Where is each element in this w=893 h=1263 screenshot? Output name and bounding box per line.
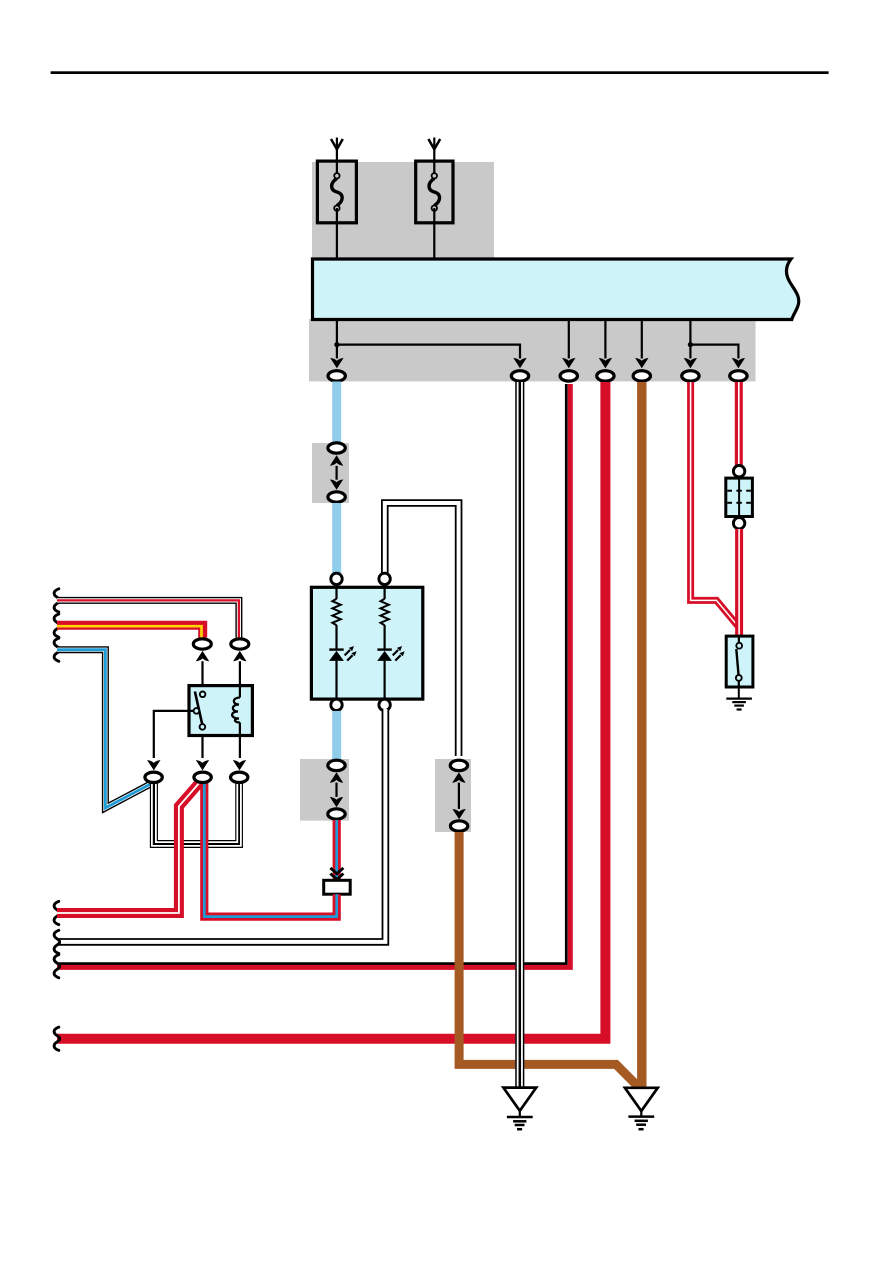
resistor R2 zigzag: [381, 599, 389, 625]
LED box (indicator lamps): [311, 587, 422, 699]
relay switch blade: [195, 692, 202, 725]
wire L skyblue segment 1: [332, 382, 341, 443]
gray panel connector C: [435, 759, 471, 832]
white wire from LED box to connector C (up and over): [385, 503, 459, 756]
white wire pair from junction block to ground: [516, 382, 524, 1088]
junction block (cyan): [313, 259, 799, 320]
connector C ovals and arrows: [450, 760, 467, 770]
fuse F1 box: [317, 161, 356, 223]
junction block pin wire 5: [641, 321, 643, 359]
wire dot1 to pin2: [337, 345, 520, 359]
junction block pin wire 3: [568, 321, 570, 359]
relay coil output wire: [239, 736, 241, 759]
fuse F1 feed arrow: [331, 139, 343, 149]
red wire from junction block to off-page left: [57, 382, 605, 1039]
wire dot6 to pin7: [690, 345, 738, 359]
LED D2 emission arrows: [393, 650, 398, 655]
arrow into oval 1: [330, 358, 343, 368]
diode/switch box S1: [726, 636, 753, 687]
relay switch output wire: [201, 736, 203, 759]
junction block pin wire 4: [604, 321, 606, 359]
LED D1 (points up, bar on top): [329, 648, 343, 650]
W-R wire entry to relay connector oval T2: [57, 600, 239, 637]
fuse F2 feed wire: [433, 138, 435, 177]
R-Y wire entry to relay connector oval T1: [57, 625, 203, 637]
ground G1 (white pair): [503, 1088, 536, 1130]
junction connector J1: [733, 466, 744, 477]
gray panel below junction block: [309, 319, 756, 381]
arrows up into top ovals: [196, 651, 209, 661]
connector B ovals and arrows: [328, 760, 345, 770]
white wire U pair between lower ovals: [152, 780, 241, 846]
LED branch 2 lead: [384, 584, 386, 599]
R-W wire from junction connector to switch: [735, 529, 743, 637]
ground under switch: [726, 687, 752, 710]
fuse F1 output wire: [336, 208, 338, 259]
gray panel connector B: [300, 759, 349, 821]
gray panel connector A: [312, 443, 349, 503]
junction node dot 1: [334, 342, 339, 347]
LED D1 emission arrows: [345, 650, 350, 655]
relay coil: [239, 687, 241, 698]
R-W wire from junction block oval 7 to junction connector: [735, 382, 743, 465]
header rule: [51, 71, 829, 74]
gray panel behind fuses: [312, 162, 494, 259]
junction block pin wire 6: [689, 321, 691, 359]
brown wire from connector C to ground: [459, 832, 637, 1086]
thick R wire w/ white stripe from off-page to middle oval: [57, 783, 200, 913]
brown wire from junction block to ground: [637, 382, 646, 1088]
R-W wire from junction block oval 6 to switch: [691, 382, 738, 626]
W-L wire entry to relay lower oval: [57, 650, 152, 808]
fuse F2 feed arrow: [428, 139, 440, 149]
wire L skyblue segment 2: [332, 503, 341, 573]
LED box terminals: [331, 573, 342, 584]
B-R wire from junction block to off-page left: [57, 384, 570, 967]
fuse F2 output wire: [433, 208, 435, 259]
off-page squiggles left: [54, 589, 60, 612]
connector ovals under junction block: [328, 371, 345, 381]
relay common wire to left: [154, 711, 194, 758]
relay box: [189, 686, 252, 736]
junction block pin wire 1: [336, 321, 338, 359]
LED branch 1 lead: [335, 584, 337, 599]
relay lower ovals: [145, 772, 162, 782]
ground G2 (brown): [625, 1088, 658, 1129]
fuse F1 feed wire: [336, 138, 338, 177]
fuse F1 element: [332, 178, 343, 205]
resistor R1 zigzag: [332, 599, 340, 625]
LED D2 (points up, bar on top): [377, 648, 391, 650]
fuse F2 box: [416, 161, 453, 223]
fuse F2 element: [429, 178, 440, 205]
white wire from LED box bottom to off-page left: [57, 709, 385, 942]
wire L skyblue segment 3: [332, 711, 341, 760]
wire L-R red/blue from noise filter to relay connector: [204, 783, 336, 917]
wire L-R red/blue from connector B down to noise filter: [333, 820, 341, 880]
noise filter box: [324, 880, 351, 894]
connector A ovals and arrows: [328, 443, 345, 453]
relay top ovals: [193, 639, 211, 649]
double chevron splice arrow: [330, 868, 343, 874]
junction node dot 6: [688, 342, 693, 347]
arrow into oval 2: [513, 358, 526, 368]
